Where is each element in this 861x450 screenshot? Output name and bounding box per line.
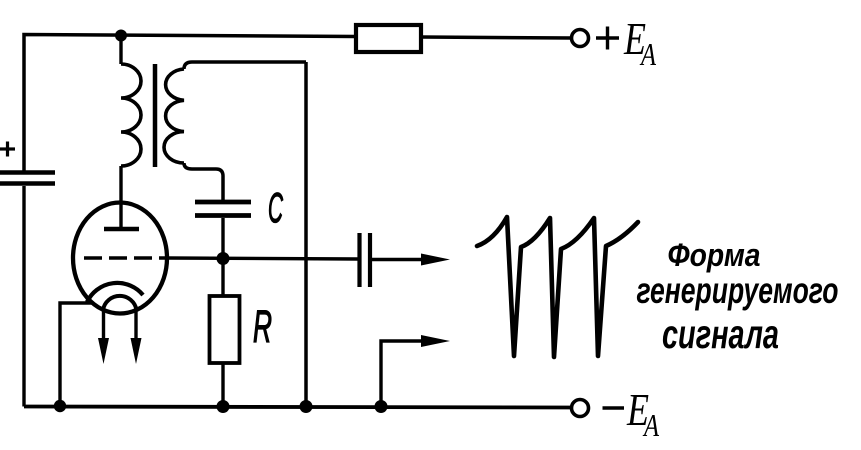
wire secondary bottom lead to capacitor C xyxy=(184,163,223,200)
wire grid node to resistor R xyxy=(221,258,224,296)
anode bar xyxy=(104,227,139,232)
heater lead right with arrow xyxy=(131,310,142,364)
svg-text:Форма: Форма xyxy=(668,237,761,273)
junction dot top (primary tap) xyxy=(115,30,127,42)
junction dot feedback-rail xyxy=(300,400,313,413)
wire grid net (grid to coupling capacitor) xyxy=(168,258,358,259)
label C xyxy=(268,184,283,231)
label minus of -EA xyxy=(603,406,625,409)
waveform (generated signal) xyxy=(477,217,638,357)
wire primary top lead xyxy=(119,35,122,64)
svg-text:A: A xyxy=(642,407,659,443)
junction dot grid node xyxy=(217,252,230,265)
heater arc xyxy=(103,296,137,310)
transformer secondary winding L2 xyxy=(164,69,184,163)
wire cathode tap xyxy=(60,303,92,407)
vacuum tube V1 envelope xyxy=(73,203,167,314)
wire resistor R to bottom rail xyxy=(221,363,224,407)
svg-text:сигнала: сигнала xyxy=(662,311,779,357)
capacitor C xyxy=(195,202,251,216)
transformer primary winding L1 xyxy=(121,64,141,166)
wire anode lead xyxy=(119,166,122,229)
terminal +EA xyxy=(572,30,589,47)
wire top rail right segment xyxy=(421,37,572,38)
label plus (electrolytic polarity) xyxy=(0,142,15,157)
label R xyxy=(253,301,272,352)
wire right vertical (feedback to cathode rail) xyxy=(304,62,308,407)
grid (dashed) xyxy=(84,256,168,260)
transformer core xyxy=(153,64,158,167)
svg-text:R: R xyxy=(253,301,272,352)
heater lead left with arrow xyxy=(98,310,109,364)
wire output upper with arrow xyxy=(372,254,450,266)
junction dot cathode-rail xyxy=(54,400,66,412)
wire secondary top lead to right vertical xyxy=(184,62,306,69)
label E of +EA xyxy=(623,13,656,72)
resistor R xyxy=(210,296,240,363)
svg-text:генерируемого: генерируемого xyxy=(637,270,839,311)
svg-text:A: A xyxy=(639,36,656,72)
terminal -EA xyxy=(572,400,589,417)
caption line 3: сигнала xyxy=(662,311,779,357)
junction dot R-rail xyxy=(217,400,230,413)
wire output lower with arrow xyxy=(381,335,450,407)
wire bottom rail xyxy=(24,407,572,408)
svg-text:C: C xyxy=(268,184,283,231)
electrolytic capacitor (left) xyxy=(0,173,55,184)
resistor R2 (anode resistor, top) xyxy=(356,25,421,52)
junction dot lower output-rail xyxy=(375,400,388,413)
label E of -EA xyxy=(626,384,659,443)
cathode arc xyxy=(87,283,143,302)
caption line 2: генерируемого xyxy=(637,270,839,311)
wire top rail left segment xyxy=(24,35,356,172)
wire capacitor C to grid node xyxy=(221,218,224,258)
caption line 1: Форма xyxy=(668,237,761,273)
label plus of +EA xyxy=(596,27,619,50)
coupling capacitor (output) xyxy=(360,233,371,287)
wire left vertical lower xyxy=(22,186,25,407)
